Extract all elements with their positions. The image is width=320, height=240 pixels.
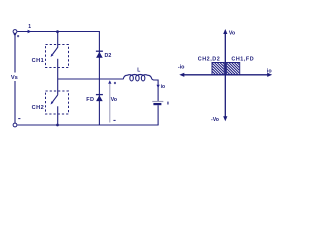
wire source left lower — [14, 81, 16, 123]
wire diode branch — [98, 31, 100, 125]
terminal bottom-left (-) — [13, 123, 17, 127]
label E — [167, 102, 168, 105]
svg-text:Vo: Vo — [229, 30, 235, 36]
wire CH2 top lead — [57, 79, 59, 95]
wire CH1 bottom lead — [57, 59, 59, 79]
junction node bottom (CH2 branch) — [56, 124, 59, 127]
svg-text:Vo: Vo — [111, 97, 118, 103]
current arrowhead into source top — [13, 34, 16, 37]
svg-text:CH1: CH1 — [32, 58, 45, 64]
junction node top (CH1 branch) — [56, 30, 59, 33]
svg-text:-io: -io — [178, 64, 185, 70]
CH1 dashed enclosure — [46, 45, 69, 68]
svg-text:CH2: CH2 — [32, 105, 45, 111]
switch CH2 blade — [52, 95, 57, 102]
wire CH1 top lead — [57, 32, 59, 48]
current arrow on top wire — [28, 30, 32, 33]
hatched quadrant region left (CH2,D2) — [200, 62, 235, 75]
Vo measuring line — [109, 84, 111, 123]
svg-text:CH1,FD: CH1,FD — [231, 56, 254, 62]
wire CH2 bottom lead — [57, 106, 59, 125]
svg-text:Vs: Vs — [11, 75, 18, 81]
minus label Vo — [113, 119, 115, 121]
svg-text:FD: FD — [86, 97, 94, 103]
diode D2 — [96, 50, 103, 52]
wire top rail — [17, 31, 99, 33]
hatched quadrant region right (CH1,FD) — [215, 62, 253, 75]
svg-text:-Vo: -Vo — [211, 117, 219, 123]
terminal top-left (+) — [13, 30, 17, 34]
svg-text:io: io — [161, 84, 165, 90]
quadrant axis horizontal — [181, 74, 271, 76]
current arrow io — [157, 85, 160, 88]
battery plate long — [152, 101, 163, 103]
inductor L — [123, 75, 152, 80]
plus label at source top — [17, 35, 19, 37]
Vo arrow head — [108, 80, 111, 84]
svg-text:1: 1 — [28, 24, 31, 30]
battery plate short — [153, 103, 161, 105]
quadrant axis vertical — [224, 31, 226, 120]
switch CH1 blade — [52, 47, 57, 54]
minus label at source bottom — [18, 118, 20, 120]
wire bottom rail — [17, 124, 158, 126]
wire battery to bottom rail — [157, 105, 159, 125]
plus label Vo — [114, 82, 116, 84]
svg-text:D2: D2 — [105, 53, 112, 59]
diode FD — [96, 94, 103, 96]
svg-text:CH2,D2: CH2,D2 — [198, 56, 220, 62]
wire source left upper — [14, 34, 16, 73]
svg-text:L: L — [137, 68, 140, 74]
svg-text:io: io — [267, 69, 272, 75]
wire middle rail — [58, 78, 124, 80]
CH2 dashed enclosure — [46, 91, 69, 114]
wire after inductor — [152, 79, 158, 101]
